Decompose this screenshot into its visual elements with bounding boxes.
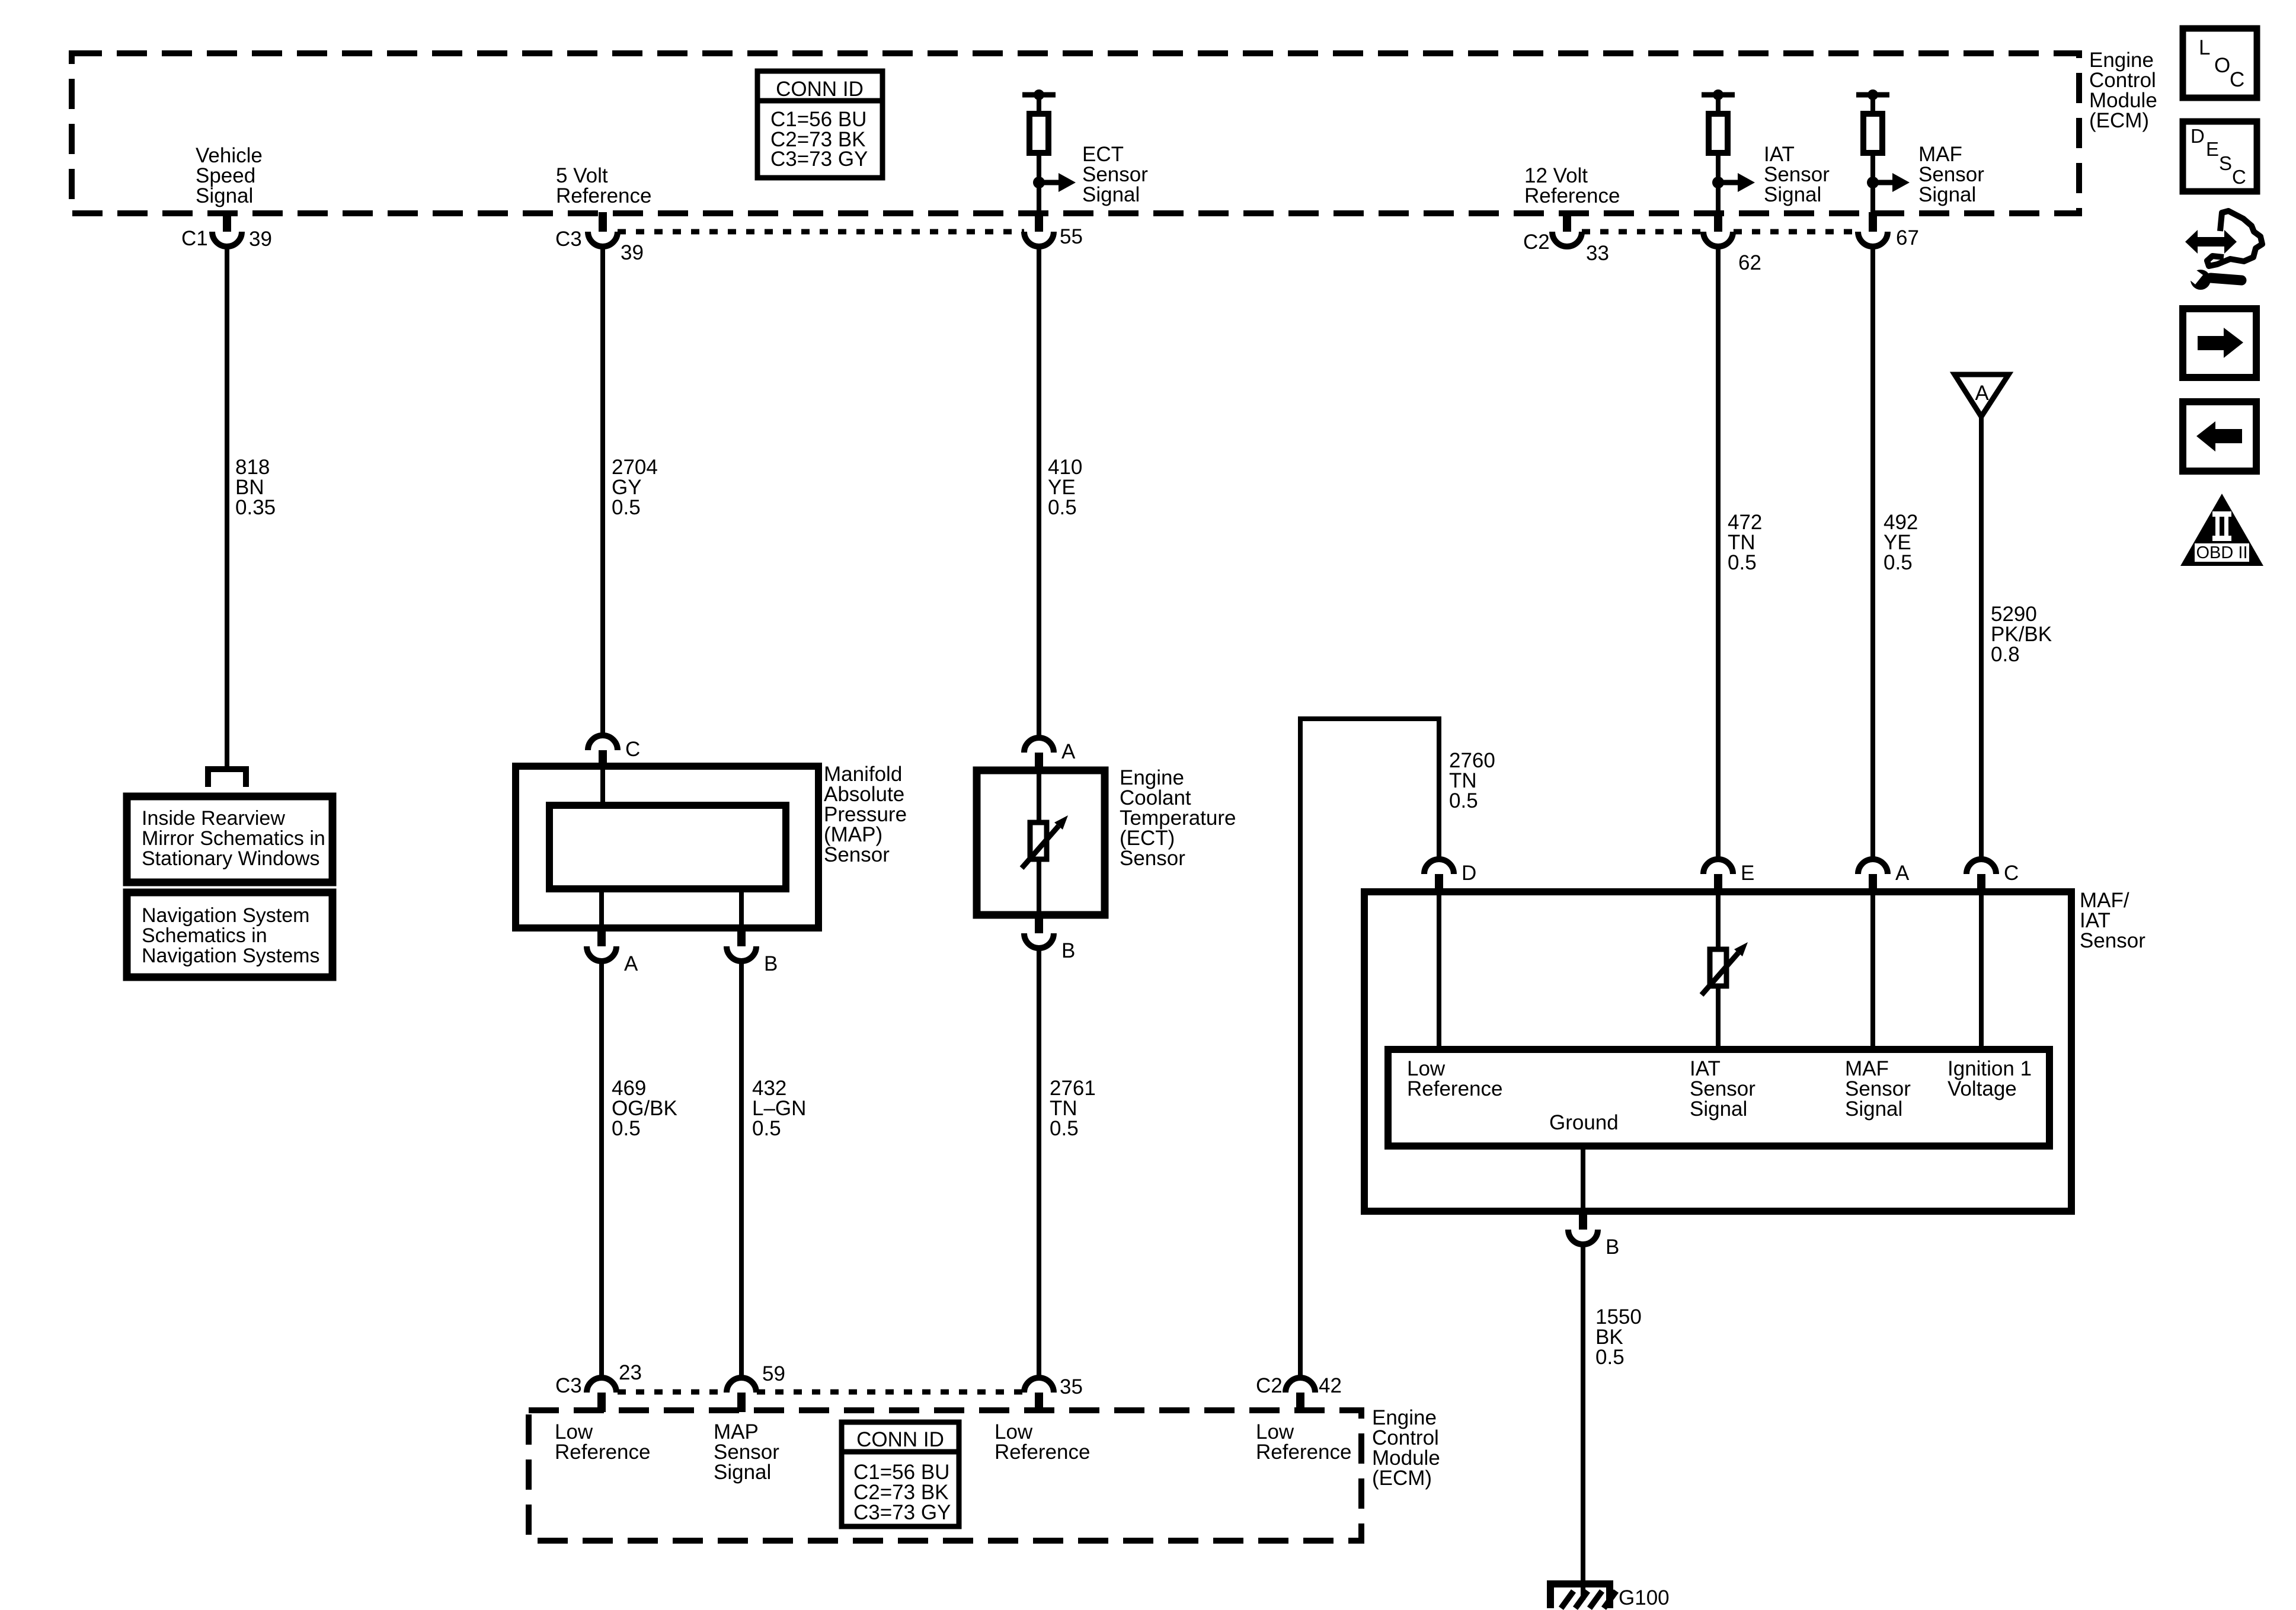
wire 2760 TN vertical to pin D xyxy=(1437,719,1441,860)
text Navigation System Schematics in Navigation Systems xyxy=(142,904,319,967)
connector boundary dotted line (bottom) xyxy=(618,1390,1024,1395)
wire label 410 YE 0.5 xyxy=(1048,456,1082,519)
svg-text:C3: C3 xyxy=(555,228,582,251)
svg-text:A: A xyxy=(1895,862,1910,885)
text IAT Sensor Signal (MAF/IAT) xyxy=(1690,1057,1755,1121)
svg-text:67: 67 xyxy=(1896,226,1919,249)
svg-text:62: 62 xyxy=(1738,251,1761,274)
connector pin B of ECT sensor xyxy=(1024,914,1054,948)
svg-text:D: D xyxy=(1462,862,1476,885)
connector pin C2-42 (Low Reference) xyxy=(1285,1378,1315,1412)
svg-text:0.5: 0.5 xyxy=(612,496,641,519)
connector pin 67 (MAF Sensor Signal) xyxy=(1858,212,1888,247)
svg-text:33: 33 xyxy=(1586,242,1609,265)
svg-text:Sensor: Sensor xyxy=(824,843,890,866)
text MAP Sensor Signal (pin 59) xyxy=(714,1420,779,1484)
svg-text:C3: C3 xyxy=(555,1374,582,1397)
connector pin 35 (Low Reference) xyxy=(1024,1378,1054,1412)
net label 5 Volt Reference xyxy=(556,164,651,207)
svg-text:Reference: Reference xyxy=(994,1441,1090,1464)
wire C pin to MAP inner element xyxy=(600,768,605,805)
wire pin A to inner box (MAF signal) xyxy=(1870,892,1875,1049)
wire label 5290 PK/BK 0.8 xyxy=(1991,603,2052,666)
svg-text:23: 23 xyxy=(619,1361,642,1384)
pin label C3 39 xyxy=(555,228,644,264)
pin label C3 23 xyxy=(555,1361,642,1397)
text Inside Rearview Mirror Schematics in Stationary Windows xyxy=(142,807,325,870)
wire label 472 TN 0.5 xyxy=(1728,511,1762,574)
svg-text:D: D xyxy=(2191,125,2205,147)
box Inside Rearview Mirror Schematics in Stationary Windows xyxy=(127,796,332,882)
svg-text:Inside Rearview: Inside Rearview xyxy=(142,807,285,830)
ground symbol G100 xyxy=(1547,1580,1616,1608)
ECT sensor signal arrow xyxy=(1033,173,1076,192)
svg-text:Reference: Reference xyxy=(1256,1441,1351,1464)
svg-text:Navigation System: Navigation System xyxy=(142,904,309,927)
svg-text:E: E xyxy=(2206,138,2219,160)
connector pin C of MAP sensor xyxy=(588,735,618,770)
pin label 67 xyxy=(1896,226,1919,249)
pin label C1 39 xyxy=(181,227,272,251)
svg-text:Reference: Reference xyxy=(555,1441,650,1464)
wire label 818 BN 0.35 xyxy=(235,456,276,519)
svg-text:O: O xyxy=(2214,54,2230,77)
pin label 62 xyxy=(1738,251,1761,274)
wire inside ECT sensor xyxy=(1037,770,1041,915)
text Low Reference (pin 23) xyxy=(555,1420,650,1464)
svg-text:0.5: 0.5 xyxy=(1048,496,1077,519)
svg-text:0.5: 0.5 xyxy=(1728,551,1757,574)
wire MAP inner element to B pin xyxy=(739,889,744,928)
wire 492 YE (MAF Sensor Signal) xyxy=(1870,245,1875,860)
wire label 1550 BK 0.5 xyxy=(1595,1305,1642,1369)
wire MAP inner element to A pin xyxy=(599,889,604,928)
connector pin B of MAP sensor xyxy=(727,927,756,961)
net label 12 Volt Reference xyxy=(1524,164,1620,207)
MAP sensor box xyxy=(516,766,818,928)
svg-text:Signal: Signal xyxy=(1918,183,1976,206)
MAP sensor inner element box xyxy=(549,805,786,889)
svg-text:55: 55 xyxy=(1060,225,1083,248)
svg-text:B: B xyxy=(764,952,778,975)
svg-text:Reference: Reference xyxy=(1407,1077,1502,1100)
svg-text:(ECM): (ECM) xyxy=(1372,1467,1432,1490)
svg-text:39: 39 xyxy=(249,228,272,251)
svg-text:C2: C2 xyxy=(1256,1374,1283,1397)
svg-text:C: C xyxy=(2004,862,2019,885)
label IAT Sensor Signal xyxy=(1764,143,1830,206)
connector pin 55 (ECT Sensor Signal) xyxy=(1024,212,1054,247)
svg-text:Stationary Windows: Stationary Windows xyxy=(142,847,319,870)
ECM bottom dashed box (Engine Control Module) xyxy=(529,1410,1361,1541)
svg-text:0.5: 0.5 xyxy=(1050,1117,1079,1140)
wire label 469 OG/BK 0.5 xyxy=(612,1077,677,1140)
svg-text:C: C xyxy=(2232,166,2246,188)
svg-text:Sensor: Sensor xyxy=(2080,929,2145,952)
label Engine Control Module (ECM) top right xyxy=(2089,49,2157,132)
svg-text:C: C xyxy=(625,738,640,761)
connector pin C3-39 (5 Volt Reference) xyxy=(588,212,618,247)
icon car with double arrow and wrench xyxy=(2182,211,2262,290)
label Engine Coolant Temperature (ECT) Sensor xyxy=(1120,766,1236,870)
box Navigation System Schematics in Navigation Systems xyxy=(127,892,332,977)
label Manifold Absolute Pressure (MAP) Sensor xyxy=(824,763,907,866)
svg-text:0.5: 0.5 xyxy=(1595,1346,1625,1369)
wire 818 BN (Vehicle Speed Signal) xyxy=(225,245,229,767)
svg-text:C1: C1 xyxy=(181,227,208,250)
svg-text:Sensor: Sensor xyxy=(1120,847,1185,870)
resistor ECT pull-up (in ECM) xyxy=(1022,89,1056,215)
connector pin 59 (MAP Sensor Signal) xyxy=(727,1378,756,1412)
svg-text:L: L xyxy=(2199,36,2210,59)
svg-text:G100: G100 xyxy=(1619,1586,1670,1609)
connector pin D of MAF/IAT sensor xyxy=(1424,859,1454,894)
svg-text:A: A xyxy=(1061,740,1076,763)
wire 1550 BK (ground wire) xyxy=(1581,1243,1585,1600)
bracket to Inside Rearview Mirror schematic xyxy=(208,769,246,787)
net label Vehicle Speed Signal xyxy=(196,144,263,207)
svg-text:C2: C2 xyxy=(1523,231,1550,254)
pin label C2 33 xyxy=(1523,231,1609,265)
svg-text:Navigation Systems: Navigation Systems xyxy=(142,945,319,967)
svg-text:Signal: Signal xyxy=(714,1461,771,1484)
IAT sensor signal arrow xyxy=(1712,173,1755,192)
wire 2704 GY (5 Volt Reference) xyxy=(600,245,605,735)
wire label 492 YE 0.5 xyxy=(1884,511,1918,574)
wire Ground inner box to pin B xyxy=(1581,1146,1585,1211)
connector boundary dotted line C3 (top left) xyxy=(618,229,1024,235)
svg-text:Signal: Signal xyxy=(1082,183,1140,206)
svg-text:B: B xyxy=(1061,939,1075,962)
ECM top dashed box (Engine Control Module) xyxy=(72,53,2079,213)
connector pin A of MAF/IAT sensor xyxy=(1858,859,1888,894)
pin label C2 42 xyxy=(1256,1374,1342,1397)
text Low Reference (MAF/IAT) xyxy=(1407,1057,1502,1100)
svg-text:Ground: Ground xyxy=(1549,1111,1619,1134)
svg-text:(ECM): (ECM) xyxy=(2089,109,2149,132)
svg-text:CONN ID: CONN ID xyxy=(856,1428,944,1451)
CONN ID table (top) xyxy=(757,71,882,178)
label ECT Sensor Signal xyxy=(1082,143,1148,206)
text Low Reference (pin 42) xyxy=(1256,1420,1351,1464)
resistor IAT pull-up (in ECM) xyxy=(1702,89,1735,215)
connector pin E of MAF/IAT sensor xyxy=(1703,859,1733,894)
wire pin D to inner box (Low Reference) xyxy=(1437,892,1441,1049)
svg-text:0.5: 0.5 xyxy=(612,1117,641,1140)
connector pin 62 (IAT Sensor Signal) xyxy=(1703,212,1733,247)
svg-text:Mirror Schematics in: Mirror Schematics in xyxy=(142,827,325,850)
connector boundary dotted line C2 (top right) xyxy=(1582,229,1857,235)
svg-text:0.5: 0.5 xyxy=(752,1117,781,1140)
wire 2760 TN horizontal segment xyxy=(1298,716,1441,721)
text MAF Sensor Signal (MAF/IAT) xyxy=(1845,1057,1911,1121)
text Low Reference (pin 35) xyxy=(994,1420,1090,1464)
icon forward arrow box xyxy=(2183,309,2256,377)
svg-text:0.35: 0.35 xyxy=(235,496,276,519)
svg-text:CONN ID: CONN ID xyxy=(776,78,864,101)
icon LOC box xyxy=(2183,28,2257,98)
svg-text:Reference: Reference xyxy=(1524,184,1620,207)
label MAF Sensor Signal xyxy=(1918,143,1984,206)
wire label 2760 TN 0.5 xyxy=(1449,749,1495,812)
off-page reference triangle A xyxy=(1955,375,2009,417)
svg-text:OBD II: OBD II xyxy=(2196,543,2247,562)
text Ignition 1 Voltage (MAF/IAT) xyxy=(1948,1057,2032,1100)
pin label 55 xyxy=(1060,225,1083,248)
svg-text:A: A xyxy=(624,952,638,975)
CONN ID table (bottom) xyxy=(842,1422,959,1526)
connector pin C2-33 (12 Volt Reference) xyxy=(1552,212,1582,247)
svg-text:A: A xyxy=(1975,382,1989,405)
wire 5290 PK/BK (Ignition 1 Voltage) xyxy=(1979,417,1984,860)
svg-text:B: B xyxy=(1606,1235,1619,1259)
svg-text:Schematics in: Schematics in xyxy=(142,924,267,947)
ECT sensor box xyxy=(977,770,1105,915)
connector pin B of MAF/IAT sensor (Ground) xyxy=(1568,1210,1598,1244)
connector pin A of ECT sensor xyxy=(1024,738,1054,772)
svg-text:0.5: 0.5 xyxy=(1449,789,1478,812)
wire 2760 TN Low Reference vertical from pin 42 xyxy=(1298,719,1303,1376)
wire 2761 TN (ECT Low Reference) xyxy=(1037,947,1041,1376)
svg-text:39: 39 xyxy=(621,241,644,264)
MAF sensor signal arrow xyxy=(1867,173,1910,192)
svg-text:C3=73 GY: C3=73 GY xyxy=(770,148,868,171)
label MAF/ IAT Sensor xyxy=(2080,889,2145,952)
connector pin C1-39 (Vehicle Speed Signal) xyxy=(212,212,242,247)
svg-text:E: E xyxy=(1741,862,1754,885)
icon back arrow box xyxy=(2183,402,2256,471)
connector pin C3-23 (Low Reference) xyxy=(587,1378,616,1412)
svg-text:Reference: Reference xyxy=(556,184,651,207)
wire pin E to thermistor (IAT) xyxy=(1716,892,1721,949)
svg-text:42: 42 xyxy=(1319,1374,1342,1397)
svg-text:Signal: Signal xyxy=(1764,183,1821,206)
MAF/IAT sensor box xyxy=(1364,892,2071,1211)
wire label 432 L-GN 0.5 xyxy=(752,1077,806,1140)
wire 472 TN (IAT Sensor Signal) xyxy=(1716,245,1721,860)
wire pin C to inner box (Ignition 1 Voltage) xyxy=(1979,892,1984,1049)
svg-text:35: 35 xyxy=(1060,1375,1083,1398)
wire 432 L-GN (MAP Sensor Signal) xyxy=(739,960,744,1376)
MAF/IAT sensor inner box xyxy=(1388,1049,2049,1146)
svg-text:59: 59 xyxy=(762,1362,785,1385)
svg-text:Signal: Signal xyxy=(1845,1097,1902,1121)
connector pin A of MAP sensor xyxy=(587,927,616,961)
connector pin C of MAF/IAT sensor xyxy=(1966,859,1996,894)
svg-text:C3=73 GY: C3=73 GY xyxy=(853,1501,951,1524)
text Ground (MAF/IAT) xyxy=(1549,1111,1619,1134)
svg-text:S: S xyxy=(2219,152,2232,174)
wire label 2761 TN 0.5 xyxy=(1050,1077,1096,1140)
svg-text:0.5: 0.5 xyxy=(1884,551,1913,574)
svg-text:Voltage: Voltage xyxy=(1948,1077,2017,1100)
svg-text:Signal: Signal xyxy=(196,184,253,207)
svg-text:0.8: 0.8 xyxy=(1991,643,2020,666)
icon DESC box xyxy=(2183,121,2257,191)
thermistor symbol (ECT sensor) xyxy=(1022,815,1068,868)
wire 410 YE (ECT Sensor Signal) xyxy=(1037,245,1041,739)
thermistor symbol (IAT in MAF/IAT sensor) xyxy=(1702,942,1748,995)
wire thermistor to inner box xyxy=(1716,986,1721,1049)
svg-text:Signal: Signal xyxy=(1690,1097,1747,1121)
wire 469 OG/BK (MAP Low Reference) xyxy=(599,960,604,1376)
svg-text:C: C xyxy=(2230,68,2244,91)
label Engine Control Module (ECM) bottom right xyxy=(1372,1406,1440,1490)
wire label 2704 GY 0.5 xyxy=(612,456,658,519)
resistor MAF pull-up (in ECM) xyxy=(1856,89,1889,215)
icon OBD II triangle xyxy=(2180,494,2263,566)
